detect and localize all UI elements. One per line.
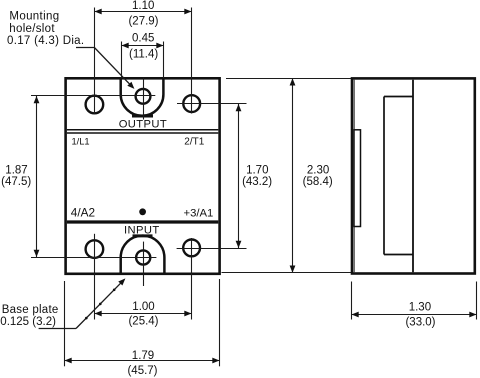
- mounting hole leader: [76, 47, 94, 49]
- base plate leader: [39, 328, 76, 330]
- output section divider upper line: [67, 129, 218, 131]
- top-center mounting hole: [136, 89, 151, 104]
- svg-text:1/L1: 1/L1: [72, 136, 90, 146]
- side view mounting flange tab: [354, 130, 361, 227]
- svg-text:1.00: 1.00: [132, 301, 154, 313]
- input terminal arch (bottom cover): [121, 236, 165, 273]
- centerline bottom-center hole: [143, 242, 145, 286]
- dimension 1.87 line: [36, 96, 38, 257]
- bottom connector extension body to side view: [222, 272, 352, 274]
- bottom-left mounting hole: [86, 240, 104, 258]
- dimension 2.30 line: [292, 78, 294, 272]
- svg-text:(47.5): (47.5): [1, 176, 31, 188]
- svg-text:(27.9): (27.9): [128, 16, 158, 28]
- dimension 1.30 extension left: [351, 282, 353, 320]
- svg-text:1.87: 1.87: [5, 164, 27, 176]
- notch bottom flat: [132, 115, 153, 118]
- side view terminal block profile top: [384, 96, 413, 98]
- svg-text:Base plate: Base plate: [2, 304, 59, 316]
- base plate leader tick dots: [85, 317, 88, 320]
- side view outline: [352, 78, 475, 273]
- svg-text:(45.7): (45.7): [127, 365, 157, 377]
- svg-text:1.10: 1.10: [132, 0, 154, 12]
- side view vertical divider: [412, 80, 414, 273]
- dimension 1.70 line: [238, 104, 240, 248]
- polarity dot: [139, 208, 146, 215]
- extension line 1.87 top: [31, 95, 155, 97]
- top-right mounting hole: [183, 95, 200, 112]
- svg-text:(25.4): (25.4): [128, 315, 158, 327]
- dimension 1.30 line: [352, 314, 477, 316]
- svg-text:2.30: 2.30: [307, 164, 329, 176]
- svg-text:(33.0): (33.0): [405, 317, 435, 329]
- dimension 0.45 extension right: [163, 42, 165, 79]
- svg-text:0.125 (3.2): 0.125 (3.2): [0, 316, 56, 328]
- centerline top-center hole: [143, 78, 145, 120]
- bottom-right mounting hole: [183, 240, 200, 257]
- bottom-center mounting hole: [136, 250, 150, 264]
- svg-text:0.45: 0.45: [132, 33, 154, 45]
- side view base plate line lower: [353, 227, 355, 273]
- top-left mounting hole: [86, 96, 104, 114]
- svg-text:+3/A1: +3/A1: [184, 207, 214, 219]
- svg-text:1.70: 1.70: [246, 164, 268, 176]
- centerline bottom-left hole: [94, 234, 96, 320]
- svg-text:INPUT: INPUT: [124, 224, 160, 236]
- side view terminal block profile left edge: [383, 97, 385, 255]
- svg-text:(11.4): (11.4): [129, 48, 158, 60]
- svg-text:1.30: 1.30: [409, 302, 431, 314]
- arch top flat: [133, 234, 153, 237]
- centerline bottom-right hole: [191, 238, 193, 320]
- dimension 0.45 extension left: [121, 42, 123, 79]
- svg-text:hole/slot: hole/slot: [9, 23, 55, 35]
- dimension 1.10 line: [95, 11, 192, 13]
- dimension 1.79 line: [65, 360, 220, 362]
- svg-text:2/T1: 2/T1: [184, 137, 204, 148]
- side view terminal block profile bottom: [384, 254, 413, 256]
- extension line 1.87 bottom: [31, 257, 156, 259]
- svg-text:4/A2: 4/A2: [71, 205, 95, 219]
- output terminal notch (top slot): [121, 80, 164, 116]
- side view base plate line upper: [353, 80, 355, 130]
- svg-text:(58.4): (58.4): [303, 176, 333, 188]
- svg-text:0.17 (4.3) Dia.: 0.17 (4.3) Dia.: [7, 35, 84, 47]
- svg-text:1.79: 1.79: [132, 350, 154, 362]
- dimension 1.79 extension left: [64, 281, 66, 366]
- svg-text:(43.2): (43.2): [242, 176, 272, 188]
- svg-text:OUTPUT: OUTPUT: [119, 119, 167, 131]
- extension line 1.70 top: [177, 103, 247, 105]
- input section divider: [67, 220, 218, 223]
- svg-text:Mounting: Mounting: [9, 10, 59, 22]
- output section divider lower line: [67, 132, 218, 134]
- centerline top-left hole: [94, 8, 96, 115]
- extension line 1.70 bottom: [177, 248, 247, 250]
- dimension 1.79 extension right: [219, 279, 221, 366]
- dimension 1.30 extension right: [476, 282, 478, 320]
- dimension 0.45 line: [122, 45, 164, 47]
- dimension 1.00 line: [95, 313, 192, 315]
- relay body front view outline: [66, 78, 220, 273]
- centerline top-right hole: [191, 8, 193, 114]
- top connector extension body to side view: [226, 78, 351, 80]
